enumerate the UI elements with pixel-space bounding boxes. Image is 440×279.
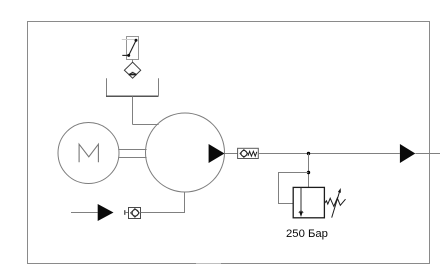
pilot wire: [279, 173, 309, 204]
wire tank down: [132, 97, 134, 125]
svg-text:250 Бар: 250 Бар: [286, 228, 328, 240]
wire tank to pump: [133, 124, 159, 126]
relief valve body: [293, 187, 324, 217]
wire pump to check valve: [225, 153, 238, 155]
pump circle: [146, 113, 225, 192]
suction check valve box: [129, 208, 141, 219]
breather vent line (light): [122, 39, 135, 41]
outlet arrow: [400, 144, 415, 163]
breather lever pivot dot: [127, 54, 130, 57]
branch wire down: [308, 154, 310, 188]
node junction 2: [307, 171, 310, 174]
relief valve adjust arrow: [332, 190, 340, 217]
main pressure wire: [259, 153, 400, 155]
breather lever stub: [122, 54, 128, 56]
breather lever end dot: [135, 39, 138, 42]
tank bottom: [106, 95, 159, 97]
relief valve spring: [324, 198, 345, 206]
filter water line: [129, 74, 137, 76]
breather level-adjuster body: [127, 37, 139, 60]
check valve box: [238, 148, 259, 158]
suction source triangle: [98, 204, 114, 221]
pump outlet triangle: [209, 144, 225, 163]
motor letter M: [79, 144, 98, 162]
relief valve flow line: [300, 188, 302, 215]
tank left wall: [106, 78, 108, 96]
relief valve flow arrowhead: [299, 212, 303, 217]
coupling tick: [124, 210, 126, 215]
wire to edge: [415, 153, 440, 155]
check valve seat diamond: [240, 150, 248, 158]
tank right wall: [158, 78, 160, 96]
suction check valve poppet: [132, 210, 138, 216]
suction wire to pump: [141, 192, 185, 212]
filter level marks: [130, 72, 136, 74]
coupling stub wire: [125, 212, 129, 214]
shaft double line: [118, 149, 146, 151]
breather lever diagonal: [129, 40, 137, 56]
suction supply wire: [71, 212, 98, 214]
motor M circle: [58, 123, 119, 184]
filter diamond: [124, 62, 140, 78]
suction check valve seat diamond: [131, 209, 140, 218]
node junction 1: [307, 152, 310, 155]
check valve spring: [248, 151, 257, 156]
link rect to filter: [132, 59, 134, 62]
check valve poppet circle: [241, 151, 247, 157]
